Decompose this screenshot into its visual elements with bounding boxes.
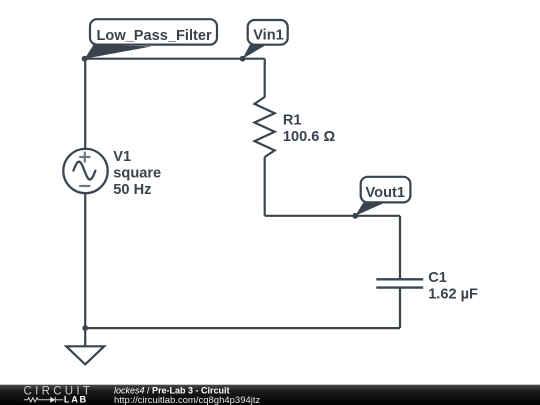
svg-text:50 Hz: 50 Hz <box>113 182 151 198</box>
svg-text:Vout1: Vout1 <box>366 185 405 201</box>
wire capacitor vertical upper <box>399 216 401 279</box>
wire right vertical upper <box>264 59 266 97</box>
svg-text:square: square <box>113 165 161 181</box>
svg-text:100.6 Ω: 100.6 Ω <box>283 129 336 145</box>
wire bottom horizontal <box>85 327 400 329</box>
node label Vout1 <box>355 177 410 216</box>
svg-text:lockes4 / Pre-Lab 3 - Circuit: lockes4 / Pre-Lab 3 - Circuit <box>114 385 230 395</box>
V1 value labels <box>113 149 161 198</box>
svg-text:V1: V1 <box>113 149 131 165</box>
CircuitLab logo circuit squiggle with diode <box>24 397 63 403</box>
ground <box>66 328 104 364</box>
C1 value labels <box>428 270 478 302</box>
svg-text:1.62 µF: 1.62 µF <box>428 287 478 303</box>
V1 plus sign <box>79 152 90 163</box>
wire capacitor vertical lower <box>399 288 401 329</box>
node label Low_Pass_Filter <box>85 19 217 59</box>
svg-text:http://circuitlab.com/cq8gh4p3: http://circuitlab.com/cq8gh4p394jtz <box>114 395 261 405</box>
footer bar <box>0 385 540 405</box>
node A junction dot <box>82 56 88 62</box>
node label Vin1 <box>243 20 288 59</box>
wire left vertical lower <box>84 193 86 328</box>
resistor R1 <box>255 97 275 157</box>
wire top horizontal <box>85 58 265 60</box>
node ground junction dot <box>82 325 88 331</box>
R1 value labels <box>283 113 336 146</box>
V1 minus sign <box>79 185 90 187</box>
node Vout1 junction dot <box>352 213 358 219</box>
svg-text:Vin1: Vin1 <box>253 28 284 44</box>
svg-text:C1: C1 <box>428 270 447 286</box>
wire left vertical upper <box>84 59 86 149</box>
wire right vertical lower <box>264 157 266 216</box>
node Vin1 junction dot <box>240 56 246 62</box>
capacitor C1 <box>376 279 423 287</box>
voltage source V1 <box>63 149 107 193</box>
svg-text:R1: R1 <box>283 113 302 129</box>
wire middle horizontal <box>265 215 400 217</box>
svg-text:LAB: LAB <box>64 394 88 404</box>
svg-text:Low_Pass_Filter: Low_Pass_Filter <box>97 28 212 44</box>
CircuitLab logo diode triangle <box>50 397 55 403</box>
